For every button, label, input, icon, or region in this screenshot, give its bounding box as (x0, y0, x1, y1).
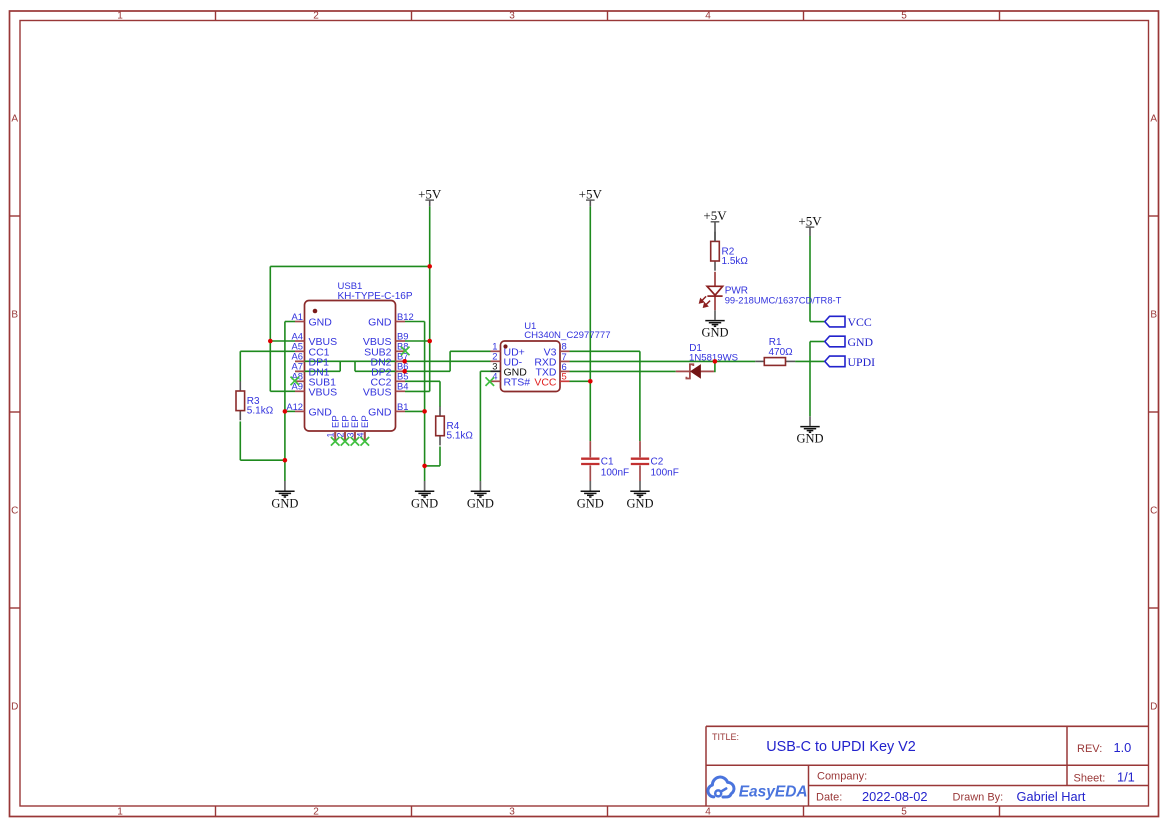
ground (USB shell right) (411, 481, 438, 510)
svg-text:GND: GND (848, 335, 874, 349)
wire (285, 321, 295, 323)
svg-text:2: 2 (336, 432, 346, 437)
resistor R1 (755, 337, 795, 365)
svg-text:A: A (1150, 114, 1157, 125)
svg-text:4: 4 (355, 432, 365, 437)
svg-text:GND: GND (309, 317, 333, 329)
U1 pin 4 RTS# (491, 371, 531, 389)
ground (C2) (626, 481, 653, 510)
border tick top (999, 11, 1001, 21)
border tick top (803, 11, 805, 21)
svg-text:Drawn By:: Drawn By: (953, 792, 1004, 804)
border tick left (10, 607, 21, 609)
wire (795, 360, 825, 362)
svg-text:C: C (1150, 506, 1157, 517)
svg-text:2: 2 (313, 807, 319, 818)
USB1 pin B7 DN2 (370, 351, 408, 369)
border tick bottom (411, 806, 413, 817)
svg-text:GND: GND (271, 496, 298, 510)
LED PWR 99-218UMC (700, 272, 842, 311)
wire (405, 380, 440, 382)
ground (port) (796, 416, 823, 445)
U1 pin 6 TXD (536, 361, 570, 379)
svg-text:5.1kΩ: 5.1kΩ (247, 406, 274, 417)
junction R3/GND (283, 458, 288, 463)
wire (479, 371, 481, 481)
wire (589, 206, 591, 441)
USB1 pin B5 CC2 (370, 371, 408, 389)
USB1 pin A7 DN1 (292, 361, 330, 379)
no-connect X RTS# (486, 377, 495, 386)
svg-text:5: 5 (901, 11, 907, 22)
wire (570, 370, 676, 372)
svg-text:GND: GND (368, 407, 392, 419)
border tick bottom (999, 806, 1001, 817)
wire (450, 350, 490, 352)
svg-text:100nF: 100nF (601, 467, 629, 478)
wire (284, 322, 286, 482)
ground (LED) (701, 310, 728, 339)
wire (810, 341, 825, 343)
resistor R2 (711, 232, 749, 271)
border tick top (411, 11, 413, 21)
svg-text:A: A (11, 114, 18, 125)
USB1 pin B12 GND (368, 311, 414, 329)
svg-text:EasyEDA: EasyEDA (739, 783, 808, 800)
svg-text:TITLE:: TITLE: (712, 732, 739, 742)
svg-text:REV:: REV: (1077, 743, 1102, 755)
svg-text:UPDI: UPDI (848, 355, 876, 369)
+5V symbol (VBUS) (418, 187, 442, 207)
diode D1 1N5819WS (676, 343, 738, 379)
svg-text:+5V: +5V (798, 214, 822, 229)
no-connect X EP2 (341, 437, 350, 446)
svg-text:B1: B1 (397, 401, 408, 412)
U1 pin 5 VCC (534, 371, 569, 389)
capacitor C2 100nF (631, 441, 679, 481)
wire (570, 350, 640, 352)
svg-text:Date:: Date: (816, 792, 842, 804)
wire (570, 380, 591, 382)
border tick top (215, 11, 217, 21)
ground (C1) (577, 481, 604, 510)
border tick right (1149, 411, 1159, 413)
junction D1/R1 (713, 359, 718, 364)
svg-text:1.0: 1.0 (1114, 740, 1132, 755)
EasyEDA logo (708, 777, 808, 800)
USB1 pin A1 GND (292, 311, 333, 329)
junction +5V top (427, 264, 432, 269)
wire (809, 342, 811, 417)
U1 pin 8 V3 (544, 341, 570, 359)
wire (269, 266, 271, 391)
wire (439, 447, 441, 466)
svg-text:GND: GND (626, 496, 653, 510)
svg-text:A1: A1 (292, 311, 303, 322)
title block (706, 726, 1149, 806)
border tick left (10, 411, 21, 413)
wire (810, 321, 825, 323)
USB1 pin EP 1 (326, 415, 342, 440)
wire (355, 370, 450, 372)
svg-text:CH340N_C2977777: CH340N_C2977777 (524, 330, 610, 341)
svg-text:+5V: +5V (418, 187, 442, 202)
junction B1/GND (422, 409, 427, 414)
+5V symbol (R2) (703, 208, 727, 241)
USB1 pin A9 VBUS (292, 381, 338, 399)
wire (405, 340, 430, 342)
junction B6/DP2 (402, 369, 407, 374)
svg-text:GND: GND (701, 326, 728, 340)
svg-text:VBUS: VBUS (363, 386, 392, 398)
USB1 pin EP 4 (355, 415, 371, 440)
svg-text:5: 5 (562, 371, 567, 382)
svg-text:GND: GND (467, 496, 494, 510)
USB1 pin A6 DP1 (292, 351, 330, 369)
svg-text:GND: GND (368, 317, 392, 329)
wire (425, 465, 440, 467)
svg-text:5.1kΩ: 5.1kΩ (447, 431, 474, 442)
border tick top (607, 11, 609, 21)
svg-text:3: 3 (509, 11, 515, 22)
svg-text:D: D (11, 702, 18, 713)
+5V symbol (VCC port) (798, 214, 822, 237)
wire (480, 370, 490, 372)
ground (USB shell left) (271, 481, 298, 510)
U1 pin 3 GND (491, 361, 528, 379)
svg-text:Company:: Company: (817, 771, 867, 783)
svg-text:D: D (1150, 702, 1157, 713)
+5V symbol (U1/C1) (579, 187, 603, 207)
U1 pin 2 UD- (491, 351, 523, 369)
connector USB1 body (305, 301, 396, 432)
svg-text:1: 1 (117, 11, 123, 22)
svg-text:4: 4 (492, 371, 497, 382)
USB1 pin B8 SUB2 (364, 341, 408, 359)
border tick right (1149, 607, 1159, 609)
junction R4/GND (422, 464, 427, 469)
no-connect X B8 SUB2 (401, 347, 410, 356)
svg-text:RTS#: RTS# (504, 377, 531, 389)
wire (270, 390, 295, 392)
USB1 pin A8 SUB1 (292, 371, 337, 389)
wire (449, 351, 451, 371)
svg-text:C1: C1 (601, 457, 614, 468)
wire (240, 350, 295, 352)
net port UPDI (825, 355, 875, 369)
wire (570, 360, 756, 362)
wire (295, 370, 340, 372)
no-connect X EP4 (361, 437, 370, 446)
svg-text:2022-08-02: 2022-08-02 (862, 789, 927, 804)
resistor R4 (436, 406, 474, 445)
USB1 pin 1 indicator dot (313, 309, 318, 314)
no-connect X EP3 (351, 437, 360, 446)
wire (285, 410, 295, 412)
svg-text:4: 4 (705, 11, 711, 22)
U1 pin 1 UD+ (491, 341, 525, 359)
junction VCC/C1 (588, 379, 593, 384)
wire (405, 321, 425, 323)
svg-text:1/1: 1/1 (1117, 770, 1135, 785)
svg-text:99-218UMC/1637CD/TR8-T: 99-218UMC/1637CD/TR8-T (725, 294, 842, 305)
wire (405, 390, 430, 392)
USB1 pin EP 3 (345, 415, 361, 440)
junction A4/VBUS (268, 339, 273, 344)
wire (809, 236, 811, 322)
resistor R3 (236, 381, 274, 420)
wire (339, 361, 341, 371)
USB1 pin A12 GND (286, 401, 332, 419)
wire (270, 265, 429, 267)
wire (354, 361, 356, 371)
svg-text:5: 5 (901, 807, 907, 818)
U1 pin 7 RXD (534, 351, 569, 369)
svg-text:Sheet:: Sheet: (1074, 773, 1106, 785)
svg-text:+5V: +5V (579, 187, 603, 202)
svg-text:Gabriel Hart: Gabriel Hart (1017, 789, 1086, 804)
svg-text:GND: GND (309, 407, 333, 419)
svg-text:KH-TYPE-C-16P: KH-TYPE-C-16P (338, 291, 413, 302)
svg-text:GND: GND (411, 496, 438, 510)
junction B9/VBUS (427, 339, 432, 344)
svg-text:B: B (11, 310, 18, 321)
svg-text:USB-C to UPDI Key V2: USB-C to UPDI Key V2 (766, 739, 916, 755)
svg-text:B: B (1150, 310, 1157, 321)
svg-text:3: 3 (509, 807, 515, 818)
wire (639, 351, 641, 441)
wire (439, 381, 441, 406)
svg-text:3: 3 (345, 432, 355, 437)
border tick bottom (803, 806, 805, 817)
svg-text:C: C (11, 506, 18, 517)
svg-text:GND: GND (577, 496, 604, 510)
svg-text:C2: C2 (651, 457, 664, 468)
IC U1 body (501, 341, 561, 392)
wire (239, 421, 241, 460)
USB1 pin B6 DP2 (371, 361, 408, 379)
net port GND (825, 335, 874, 349)
svg-text:+5V: +5V (703, 208, 727, 223)
svg-text:EP: EP (360, 415, 371, 428)
svg-text:A12: A12 (286, 401, 303, 412)
junction A12/GND (283, 409, 288, 414)
wire (270, 340, 295, 342)
wire (240, 459, 285, 461)
wire (405, 410, 425, 412)
net port VCC (825, 315, 872, 329)
USB1 pin B4 VBUS (363, 381, 409, 399)
svg-text:VCC: VCC (534, 377, 557, 389)
junction B7/DN2 (402, 359, 407, 364)
svg-text:1: 1 (117, 807, 123, 818)
USB1 pin B1 GND (368, 401, 408, 419)
svg-text:GND: GND (796, 432, 823, 446)
svg-text:2: 2 (313, 11, 319, 22)
svg-text:B12: B12 (397, 311, 414, 322)
capacitor C1 100nF (581, 441, 629, 481)
USB1 pin A4 VBUS (292, 330, 338, 348)
svg-text:B4: B4 (397, 381, 408, 392)
wire (429, 206, 431, 391)
svg-text:1: 1 (326, 432, 336, 437)
svg-text:VCC: VCC (848, 315, 872, 329)
U1 pin 1 indicator dot (503, 344, 507, 348)
wire (239, 351, 241, 381)
wire (295, 360, 491, 362)
border tick left (10, 215, 21, 217)
svg-text:470Ω: 470Ω (769, 347, 794, 358)
ground (U1) (467, 481, 494, 510)
svg-text:4: 4 (705, 807, 711, 818)
wire (424, 322, 426, 482)
border tick bottom (215, 806, 217, 817)
USB1 pin A5 CC1 (292, 341, 330, 359)
border tick bottom (607, 806, 609, 817)
wire D1 elbow (714, 361, 715, 371)
no-connect X A8 SUB1 (291, 377, 300, 386)
border tick right (1149, 215, 1159, 217)
USB1 pin B9 VBUS (363, 330, 409, 348)
USB1 pin EP 2 (336, 415, 352, 440)
no-connect X EP1 (331, 437, 340, 446)
svg-text:VBUS: VBUS (309, 386, 338, 398)
svg-text:1.5kΩ: 1.5kΩ (722, 256, 749, 267)
svg-text:100nF: 100nF (651, 467, 679, 478)
